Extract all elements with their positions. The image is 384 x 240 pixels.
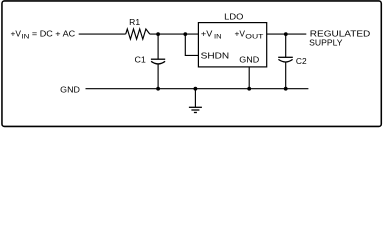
node +VIN input label — [11, 29, 76, 41]
node junction dot (earth ground tap) — [194, 87, 198, 91]
svg-text:R1: R1 — [129, 17, 140, 27]
capacitor C2 — [278, 34, 307, 89]
wire input to R1 — [79, 33, 126, 35]
svg-text:GND: GND — [239, 54, 259, 64]
node junction dot (C1 tap) — [156, 32, 160, 36]
node REGULATED SUPPLY output label — [309, 28, 370, 47]
node junction dot (C1 to ground bus) — [156, 87, 160, 91]
resistor R1 — [126, 17, 150, 39]
wire LDO GND pin down — [248, 67, 250, 89]
svg-text:+V: +V — [201, 29, 213, 39]
node junction dot (C2 to ground bus) — [284, 87, 288, 91]
wire SHDN connection — [185, 34, 198, 55]
svg-text:IN: IN — [21, 34, 29, 41]
svg-text:OUT: OUT — [245, 34, 263, 41]
node junction dot (C2 tap) — [284, 32, 288, 36]
wire ground bus — [86, 88, 309, 90]
svg-text:C1: C1 — [135, 55, 147, 65]
svg-text:= DC + AC: = DC + AC — [32, 29, 75, 39]
svg-text:GND: GND — [60, 84, 80, 94]
capacitor C1 — [135, 34, 166, 89]
svg-text:SUPPLY: SUPPLY — [309, 38, 343, 48]
pin +VIN — [201, 29, 222, 41]
border frame (decorative) — [2, 1, 381, 127]
svg-text:IN: IN — [214, 34, 222, 41]
svg-text:SHDN: SHDN — [201, 51, 230, 61]
svg-text:C2: C2 — [296, 56, 307, 66]
wire R1 to LDO — [150, 33, 199, 35]
ground — [189, 89, 202, 113]
node junction dot (SHDN tap) — [183, 32, 187, 36]
node junction dot (LDO GND to ground bus) — [247, 87, 251, 91]
svg-text:+V: +V — [11, 29, 22, 39]
pin +VOUT — [235, 29, 264, 41]
wire VOUT to regulated supply — [267, 33, 307, 35]
svg-text:LDO: LDO — [224, 12, 244, 22]
svg-text:+V: +V — [235, 29, 246, 39]
op-amp U1 : LDO regulator box — [198, 12, 266, 67]
